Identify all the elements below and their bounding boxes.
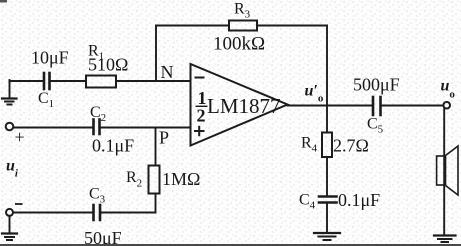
wire: R1 to op-amp inverting input, node N	[116, 80, 191, 82]
svg-text:510Ω: 510Ω	[88, 55, 128, 75]
ground (under speaker)	[434, 236, 456, 243]
svg-text:LM1877: LM1877	[207, 94, 281, 118]
op-amp non-inverting pin mark	[195, 127, 204, 135]
svg-text:10μF: 10μF	[31, 48, 69, 68]
ground (under C4)	[314, 233, 340, 240]
wire: R4 to C4	[326, 157, 328, 196]
svg-text:0.1μF: 0.1μF	[338, 190, 380, 210]
scan artifact: top-left corner mark	[0, 0, 7, 3]
svg-text:2: 2	[197, 106, 206, 126]
label - at input terminal	[15, 203, 23, 205]
resistor R1	[86, 76, 116, 88]
wire: C1 to R1	[50, 80, 86, 82]
wire: ground to C1 left plate (node N input rail)	[10, 80, 44, 82]
svg-text:100kΩ: 100kΩ	[213, 34, 265, 55]
wire: feedback drop to output node	[326, 26, 328, 106]
resistor R2	[149, 166, 160, 194]
svg-text:50μF: 50μF	[84, 228, 122, 246]
capacitor C2	[94, 120, 100, 135]
capacitor C3	[94, 205, 101, 220]
wire: op-amp output to C5	[288, 105, 373, 107]
wire: C5 to output terminal	[381, 105, 443, 107]
wire: top feedback rail left of R3	[156, 25, 229, 27]
resistor R3	[229, 21, 257, 31]
wire: top feedback rail right of R3	[257, 25, 327, 27]
op-amp gain label 1/2 LM1877	[196, 88, 281, 126]
wire: input - stub to ground	[9, 216, 11, 233]
capacitor C1	[44, 73, 50, 89]
wire: input + to C2	[14, 127, 94, 129]
wire: output terminal down to speaker and ground	[443, 109, 445, 235]
capacitor C5	[373, 97, 381, 115]
op-amp U1 (1/2 LM1877)	[191, 64, 288, 146]
wire: C4 to ground	[326, 203, 328, 233]
resistor R4	[322, 133, 332, 158]
ground (bottom-left)	[2, 234, 17, 241]
wire: R2 bottom to C3 rail	[100, 194, 156, 213]
speaker LS	[437, 146, 458, 195]
wire: input - terminal to C3	[13, 212, 93, 214]
svg-text:2.7Ω: 2.7Ω	[333, 136, 369, 156]
svg-text:P: P	[159, 128, 169, 148]
terminal: input +	[6, 123, 14, 131]
scan artifact: bottom edge line	[0, 244, 461, 246]
svg-text:500μF: 500μF	[353, 75, 400, 95]
svg-text:0.1μF: 0.1μF	[92, 136, 134, 156]
wire: C2 to op-amp non-inverting input, node P	[100, 127, 191, 129]
op-amp inverting pin mark	[196, 77, 204, 79]
svg-text:1MΩ: 1MΩ	[162, 169, 200, 189]
svg-text:+: +	[15, 127, 25, 147]
terminal: output uo	[443, 102, 450, 109]
wire: node P down to R2	[155, 128, 157, 166]
ground (top-left, C1 return)	[2, 80, 17, 105]
wire: feedback riser from node N up	[155, 26, 157, 82]
capacitor C4	[319, 197, 337, 203]
wire: node u'o down to R4	[326, 106, 328, 133]
terminal: input -	[6, 209, 13, 216]
svg-text:N: N	[161, 62, 174, 82]
